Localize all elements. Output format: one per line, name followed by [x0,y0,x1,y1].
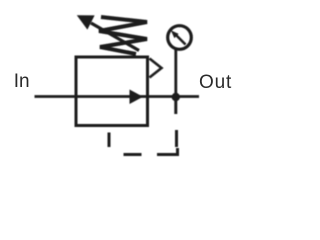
svg-text:In: In [14,71,30,92]
svg-text:Out: Out [199,72,232,93]
